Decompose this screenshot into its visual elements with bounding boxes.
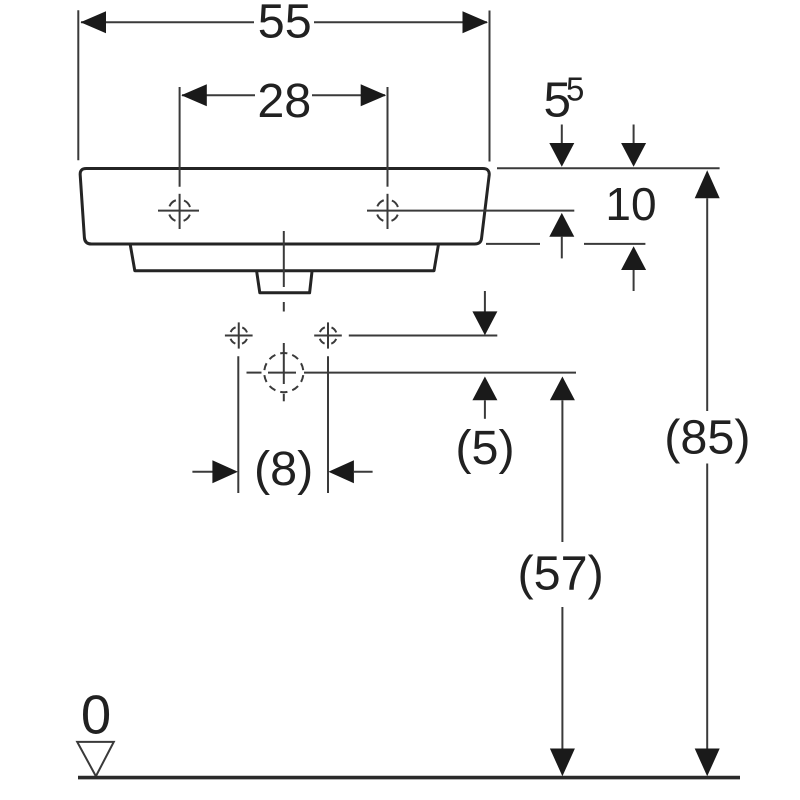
fixing hole reference line to the right bbox=[349, 335, 498, 337]
dimension (57): lower line and down arrow bbox=[550, 607, 575, 776]
dimension (85): up arrow bbox=[695, 170, 720, 411]
svg-text:5: 5 bbox=[566, 71, 584, 108]
dimension (57): up arrow bbox=[550, 377, 575, 543]
dimension 5^5: label bbox=[544, 71, 585, 128]
washbasin body outline bbox=[80, 169, 489, 245]
dimension 10: down arrow bbox=[621, 125, 646, 167]
dimension (8): extension lines bbox=[238, 356, 328, 493]
svg-text:10: 10 bbox=[605, 178, 656, 230]
dimension 10: up arrow bbox=[621, 246, 646, 291]
ground line bbox=[78, 776, 740, 780]
svg-text:(85): (85) bbox=[664, 411, 750, 465]
dimension 28: extension lines bbox=[180, 87, 388, 187]
drain reference line to the right bbox=[247, 372, 577, 374]
vertical center line (dashed) bbox=[283, 231, 285, 312]
tap hole reference line to the right bbox=[367, 210, 574, 212]
dimension (85): lower line and down arrow bbox=[695, 464, 720, 777]
svg-text:0: 0 bbox=[81, 684, 111, 745]
dimension 5^5: up arrow bbox=[549, 213, 574, 259]
drain box bbox=[257, 272, 312, 293]
datum triangle symbol bbox=[77, 742, 114, 776]
dimension 55: dimension line with arrowheads bbox=[81, 11, 489, 33]
dimension (5): up arrow bbox=[472, 377, 497, 419]
dimension (8): left arrow bbox=[192, 460, 238, 483]
washbasin pedestal bbox=[130, 246, 438, 271]
svg-text:(8): (8) bbox=[254, 442, 313, 496]
dimension 5^5: down arrow bbox=[549, 125, 574, 167]
dimension (5): down arrow bbox=[472, 291, 497, 335]
svg-text:28: 28 bbox=[257, 74, 311, 128]
right tap hole (dashed circle + cross) bbox=[377, 194, 399, 229]
left fixing hole (dashed circle + cross) bbox=[225, 322, 253, 348]
dimension (8): right arrow bbox=[328, 460, 372, 483]
svg-text:55: 55 bbox=[258, 0, 312, 48]
svg-text:(57): (57) bbox=[517, 546, 603, 600]
right fixing hole (dashed circle + cross) bbox=[314, 322, 342, 348]
svg-text:(5): (5) bbox=[455, 421, 514, 475]
drain trap hole (dashed circle + cross) bbox=[264, 343, 303, 401]
dimension 28: dimension line with arrowheads bbox=[181, 84, 386, 106]
left tap hole (dashed circle + cross) bbox=[158, 194, 199, 229]
top reference line (rim level) bbox=[497, 167, 720, 169]
bottom reference line segments (basin underside level) bbox=[486, 243, 645, 245]
dimension 55: extension lines bbox=[78, 10, 489, 161]
